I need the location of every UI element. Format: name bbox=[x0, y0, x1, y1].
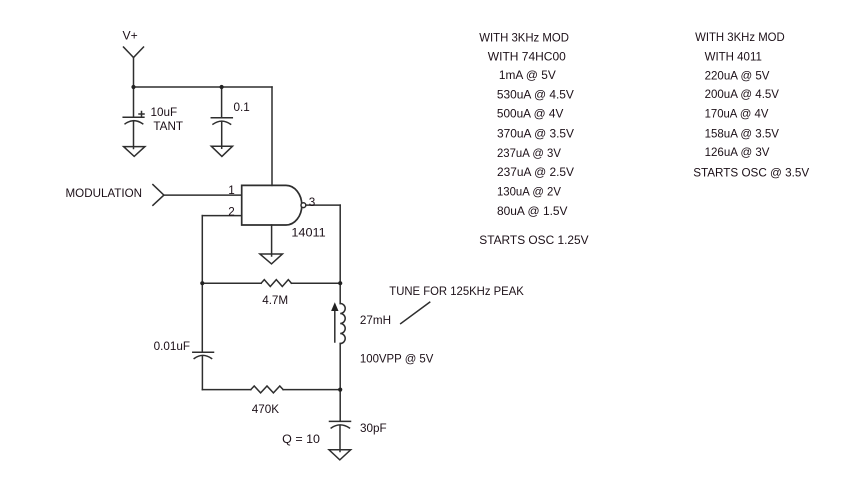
svg-text:237uA @ 3V: 237uA @ 3V bbox=[497, 147, 561, 160]
wire 4.7M row right bbox=[291, 282, 340, 284]
svg-text:27mH: 27mH bbox=[360, 314, 391, 327]
wire output down to resistor row bbox=[339, 205, 341, 283]
wire C4 top lead bbox=[339, 390, 341, 421]
junction node 4.7M right bbox=[338, 281, 342, 285]
svg-text:TUNE FOR 125KHz PEAK: TUNE FOR 125KHz PEAK bbox=[389, 285, 524, 298]
wire 470K row right bbox=[283, 389, 340, 391]
svg-text:237uA @ 2.5V: 237uA @ 2.5V bbox=[497, 166, 574, 179]
output bubble bbox=[301, 203, 306, 208]
svg-text:10uF: 10uF bbox=[151, 106, 178, 119]
svg-text:WITH 4011: WITH 4011 bbox=[705, 50, 762, 63]
svg-text:220uA @ 5V: 220uA @ 5V bbox=[705, 70, 770, 83]
svg-text:3: 3 bbox=[309, 196, 316, 209]
svg-text:1: 1 bbox=[228, 184, 235, 197]
tuning arrow bbox=[331, 302, 338, 342]
ground below C4 bbox=[329, 450, 351, 460]
svg-text:0.01uF: 0.01uF bbox=[154, 340, 190, 353]
wire left vertical lower bbox=[201, 357, 203, 390]
input connector MODULATION bbox=[153, 185, 164, 206]
power symbol V+ bbox=[124, 47, 144, 58]
wire right vertical above coil bbox=[339, 283, 341, 303]
wire C2 top lead bbox=[221, 87, 223, 117]
nand gate U1 14011 bbox=[242, 185, 302, 225]
pointer line for tune label bbox=[401, 302, 430, 323]
svg-text:0.1: 0.1 bbox=[234, 101, 250, 114]
wire pin 2 horizontal bbox=[202, 215, 241, 217]
wire 470K row left bbox=[202, 389, 250, 391]
svg-text:470K: 470K bbox=[252, 403, 280, 416]
svg-text:100VPP @ 5V: 100VPP @ 5V bbox=[360, 353, 434, 366]
wire modulation to pin 1 bbox=[164, 194, 242, 196]
svg-text:170uA @ 4V: 170uA @ 4V bbox=[705, 108, 769, 121]
wire gate ground stub bbox=[271, 225, 273, 256]
junction node rail right bbox=[220, 85, 224, 89]
svg-text:530uA @ 4.5V: 530uA @ 4.5V bbox=[497, 89, 574, 102]
junction node rail left bbox=[131, 85, 135, 89]
svg-text:STARTS OSC @ 3.5V: STARTS OSC @ 3.5V bbox=[693, 167, 809, 180]
svg-text:200uA @ 4.5V: 200uA @ 4.5V bbox=[705, 88, 780, 101]
capacitor C2 0.1 bbox=[211, 118, 232, 125]
wire C4 bottom lead bbox=[339, 426, 341, 452]
inductor L1 27mH bbox=[340, 304, 345, 344]
wire pin 2 down to resistor row bbox=[201, 216, 203, 284]
svg-text:500uA @ 4V: 500uA @ 4V bbox=[497, 108, 564, 121]
svg-text:V+: V+ bbox=[123, 30, 138, 43]
resistor R2 470K bbox=[251, 386, 283, 393]
wire top rail bbox=[134, 86, 273, 88]
svg-text:TANT: TANT bbox=[153, 120, 183, 133]
svg-text:130uA @ 2V: 130uA @ 2V bbox=[497, 186, 561, 199]
svg-text:126uA @ 3V: 126uA @ 3V bbox=[705, 146, 770, 159]
svg-text:WITH 3KHz MOD: WITH 3KHz MOD bbox=[695, 31, 785, 44]
svg-text:14011: 14011 bbox=[291, 226, 325, 239]
wire gate output pin 3 bbox=[306, 204, 340, 206]
wire right vertical below coil bbox=[339, 344, 341, 390]
svg-text:80uA @ 1.5V: 80uA @ 1.5V bbox=[497, 205, 568, 218]
svg-text:STARTS OSC 1.25V: STARTS OSC 1.25V bbox=[479, 234, 589, 247]
capacitor C1 10uF TANT bbox=[123, 112, 144, 124]
wire 4.7M row left bbox=[202, 282, 261, 284]
wire C1 bottom lead bbox=[133, 122, 135, 149]
svg-text:2: 2 bbox=[228, 205, 235, 218]
svg-text:WITH 3KHz MOD: WITH 3KHz MOD bbox=[479, 32, 569, 45]
wire V+ stub bbox=[133, 58, 135, 88]
ground below C1 bbox=[124, 147, 145, 157]
junction node 470K right bbox=[338, 388, 342, 392]
wire C1 top lead bbox=[133, 87, 135, 117]
ground below gate bbox=[260, 254, 283, 264]
capacitor C4 30pF bbox=[330, 421, 351, 428]
svg-text:1mA @ 5V: 1mA @ 5V bbox=[499, 69, 556, 82]
svg-text:158uA @ 3.5V: 158uA @ 3.5V bbox=[705, 127, 780, 140]
capacitor C3 0.01uF bbox=[193, 352, 214, 358]
svg-text:Q = 10: Q = 10 bbox=[282, 433, 320, 446]
resistor R1 4.7M bbox=[261, 280, 291, 287]
ground below C2 bbox=[211, 146, 232, 156]
junction node 4.7M left bbox=[200, 281, 204, 285]
wire rail corner to gate power bbox=[271, 87, 273, 185]
wire left vertical upper bbox=[201, 283, 203, 352]
svg-text:4.7M: 4.7M bbox=[262, 294, 288, 307]
svg-text:MODULATION: MODULATION bbox=[66, 187, 143, 200]
wire C2 bottom lead bbox=[221, 122, 223, 148]
svg-text:30pF: 30pF bbox=[360, 422, 387, 435]
svg-text:370uA @ 3.5V: 370uA @ 3.5V bbox=[497, 127, 574, 140]
svg-text:WITH 74HC00: WITH 74HC00 bbox=[488, 50, 566, 63]
